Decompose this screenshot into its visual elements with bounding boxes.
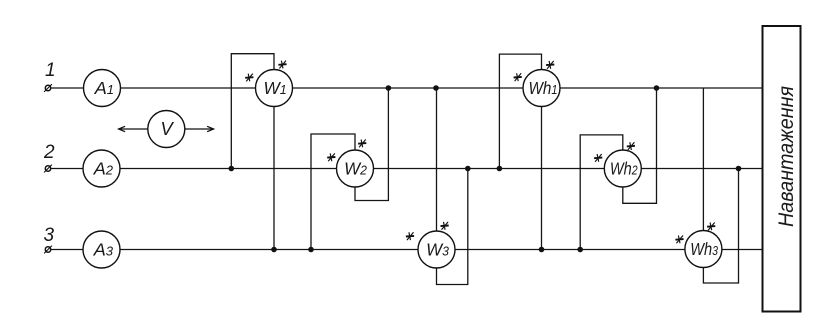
ammeter A1 — [84, 70, 121, 107]
junction dot W3-top on line 1 — [433, 85, 439, 91]
wire W2 voltage-coil loop to line 3 — [311, 134, 355, 250]
polarity star W1 voltage — [278, 61, 286, 69]
polarity star W3 voltage — [441, 222, 449, 230]
polarity star W2 current — [327, 153, 335, 161]
svg-text:Wh3: Wh3 — [690, 240, 718, 260]
polarity star Wh2 voltage — [627, 142, 635, 150]
wire phase line 1 — [51, 87, 763, 89]
wire W2 bottom jog to line 1 — [355, 88, 388, 201]
wire phase line 3 — [51, 249, 763, 251]
wire Wh1 bottom to line 3 — [541, 107, 543, 250]
terminal input 3 — [44, 246, 52, 254]
junction dot Wh1-bottom on line 3 — [539, 247, 545, 253]
polarity star Wh2 current — [594, 154, 602, 162]
junction dot Wh3-bottom on line 2 — [736, 166, 742, 172]
watthour meter Wh3 — [685, 231, 722, 268]
terminal input 1 — [44, 84, 52, 92]
wire Wh3 top to line 1 — [702, 88, 704, 231]
load box Навантаження — [763, 26, 801, 312]
wattmeter W1 — [256, 70, 293, 107]
wattmeter W3 — [418, 231, 455, 268]
wire W1 voltage-coil loop to line 2 — [231, 54, 274, 169]
junction dot W2-loop on line 3 — [308, 247, 314, 253]
wire Wh1 voltage-coil loop to line 2 — [499, 54, 541, 168]
polarity star W1 current — [245, 74, 253, 82]
watthour meter Wh2 — [604, 150, 641, 187]
polarity star Wh3 voltage — [707, 223, 715, 231]
wire W1 bottom to line 3 — [273, 107, 275, 250]
polarity star W3 current — [406, 232, 414, 240]
voltmeter left arrow — [119, 126, 148, 131]
voltmeter right arrow — [185, 126, 214, 131]
svg-text:1: 1 — [45, 60, 56, 81]
junction dot Wh1-loop on line 2 — [497, 166, 503, 172]
wire Wh2 bottom jog to line 1 — [623, 88, 657, 203]
wire phase line 2 — [51, 168, 763, 170]
watthour meter Wh1 — [523, 70, 560, 107]
voltmeter V — [148, 111, 185, 148]
ammeter A2 — [83, 150, 120, 187]
wire W3 top to line 1 — [436, 88, 438, 231]
polarity star W2 voltage — [358, 140, 366, 148]
polarity star Wh1 current — [514, 73, 522, 81]
junction dot W1-loop on line 2 — [229, 166, 235, 172]
svg-text:V: V — [160, 118, 174, 139]
wire Wh2 voltage-coil loop to line 3 — [580, 135, 623, 250]
junction dot Wh2-loop on line 3 — [577, 247, 583, 253]
ammeter A3 — [83, 231, 120, 268]
polarity star Wh1 voltage — [546, 61, 554, 69]
junction dot W3-bottom on line 2 — [465, 166, 471, 172]
svg-text:3: 3 — [44, 225, 55, 246]
polarity star Wh3 current — [675, 236, 683, 244]
junction dot W2-bottom on line 1 — [386, 85, 392, 91]
junction dot W1-bottom on line 3 — [271, 247, 277, 253]
wire W3 bottom jog to line 2 — [437, 169, 468, 285]
svg-text:Навантаження: Навантаження — [774, 86, 798, 227]
svg-text:2: 2 — [43, 142, 55, 163]
junction dot Wh2-bottom on line 1 — [654, 85, 660, 91]
svg-text:Wh2: Wh2 — [610, 159, 638, 179]
wattmeter W2 — [337, 150, 374, 187]
terminal input 2 — [44, 165, 52, 173]
wire Wh3 bottom jog to line 2 — [703, 169, 738, 284]
